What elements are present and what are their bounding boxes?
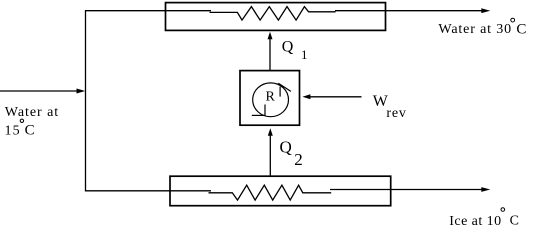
svg-text:Ice at 10: Ice at 10 [449, 214, 501, 229]
cycle arrow mark (bottom-left) [264, 105, 266, 116]
refrigerator box U1 [240, 71, 300, 126]
arrowhead: top outlet [481, 8, 490, 13]
wire: bottom-left horizontal into bottom exchanger [85, 190, 211, 192]
cycle circle inside refrigerator [253, 83, 289, 117]
svg-text:C: C [25, 123, 35, 139]
resistor coil (top exchanger) [210, 7, 336, 21]
wire: top-left horizontal into top exchanger [85, 10, 211, 12]
svg-text:Q: Q [280, 137, 292, 156]
svg-text:1: 1 [301, 47, 308, 62]
svg-text:C: C [510, 214, 519, 229]
heat exchanger box (bottom, ice 10C) [170, 176, 391, 206]
arrow Q1: from refrigerator up into top exchanger [269, 38, 271, 71]
svg-text:Water at: Water at [5, 105, 59, 120]
svg-text:Q: Q [282, 39, 294, 56]
arrow Q2: from bottom exchanger up into refrigerator [269, 135, 271, 176]
wire: water inlet line [0, 90, 78, 92]
svg-text:15: 15 [5, 123, 21, 138]
svg-text:Water at 30: Water at 30 [438, 22, 512, 37]
wire: left vertical bus [85, 10, 87, 191]
svg-text:R: R [266, 89, 276, 104]
arrowhead: water inlet [77, 89, 86, 94]
wire: top outlet line to water 30C [335, 10, 482, 12]
svg-text:C: C [516, 21, 526, 37]
svg-text:rev: rev [386, 106, 406, 121]
wire: bottom outlet line to ice [330, 189, 482, 191]
resistor coil (bottom exchanger) [209, 185, 332, 200]
svg-text:2: 2 [294, 150, 303, 169]
arrow W_rev: into refrigerator from right [310, 96, 362, 98]
cycle arrow mark (top-right) [279, 87, 281, 97]
heat exchanger box (top, water 30C) [166, 3, 386, 31]
arrowhead: bottom outlet [481, 187, 490, 192]
